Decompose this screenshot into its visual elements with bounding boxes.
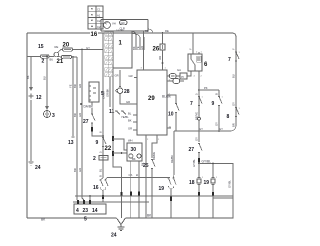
switch 9 right: [212, 90, 223, 132]
fuse 21 lower branch: [57, 55, 78, 65]
svg-text:GY: GY: [219, 127, 223, 131]
wire fuse15 horizontal from border: [27, 56, 54, 58]
connector pin stack left of block 1: [103, 32, 113, 179]
outer border top: [27, 33, 236, 37]
box 5: [89, 82, 104, 102]
oval GD: [120, 21, 128, 25]
svg-text:BU: BU: [50, 58, 54, 62]
fuse 15: [38, 44, 49, 58]
svg-text:21: 21: [57, 59, 64, 65]
dual switch 16: [93, 175, 108, 202]
svg-text:29: 29: [148, 96, 155, 102]
outer border left: [26, 33, 28, 218]
svg-text:27: 27: [83, 119, 89, 125]
curve from motor box right to border: [148, 29, 153, 33]
svg-text:4: 4: [76, 208, 79, 214]
svg-text:13: 13: [68, 140, 74, 146]
fuse 20 upper branch: [61, 43, 103, 52]
svg-text:3: 3: [52, 113, 55, 119]
rail 113 with pins to box 30: [105, 68, 122, 167]
svg-text:16: 16: [93, 185, 99, 191]
svg-text:7: 7: [190, 101, 193, 107]
svg-text:0.5 BK: 0.5 BK: [116, 29, 124, 33]
right rail switch 7 top: [228, 48, 239, 78]
svg-text:B: B: [99, 175, 103, 177]
svg-text:GR: GR: [78, 113, 82, 117]
svg-text:GD: GD: [121, 21, 125, 25]
component 28: [115, 70, 138, 104]
svg-text:VH: VH: [112, 22, 116, 26]
svg-text:GR: GR: [115, 74, 119, 78]
svg-text:14: 14: [92, 208, 98, 214]
middle rails 73 77 82: [68, 49, 84, 200]
svg-text:12: 12: [36, 95, 42, 101]
svg-text:RE/BK: RE/BK: [170, 155, 174, 163]
svg-text:24: 24: [111, 233, 117, 239]
svg-text:BR: BR: [73, 168, 77, 172]
component block 1: [113, 31, 132, 68]
svg-text:10: 10: [168, 112, 174, 118]
svg-text:RE: RE: [55, 45, 59, 49]
svg-text:GY: GY: [232, 102, 236, 106]
svg-text:5: 5: [84, 217, 87, 223]
svg-text:22: 22: [105, 146, 112, 152]
svg-text:2: 2: [42, 58, 45, 64]
Y drop from border into relay: [189, 33, 194, 54]
svg-text:BK: BK: [128, 119, 132, 123]
svg-text:9: 9: [96, 140, 99, 146]
DA/BK wire label under box5: [80, 102, 94, 114]
BL/BK wire from box29 to switch 10: [162, 95, 179, 132]
svg-text:CA/BK: CA/BK: [102, 91, 106, 99]
svg-text:YE: YE: [69, 84, 73, 88]
svg-text:9: 9: [212, 101, 215, 107]
svg-text:WH: WH: [128, 139, 133, 143]
svg-text:11: 11: [109, 109, 115, 115]
rail below relay: junction, switches 7 and 9: [190, 71, 219, 142]
svg-text:23: 23: [83, 208, 89, 214]
svg-text:Y: Y: [189, 48, 193, 50]
svg-text:BR: BR: [73, 84, 77, 88]
bottom connector box 4 23 14 / 5: [74, 195, 106, 222]
relay 6: [188, 52, 208, 71]
svg-text:PI: PI: [181, 75, 184, 79]
switch 25 chain from box29 bottom pin: [143, 137, 157, 219]
bottom horizontal bus y196: [75, 195, 233, 197]
svg-text:BK: BK: [132, 46, 136, 50]
svg-text:20: 20: [63, 43, 70, 49]
svg-text:YE/BL: YE/BL: [121, 115, 129, 119]
svg-text:GR/BK: GR/BK: [106, 88, 110, 97]
svg-text:GY: GY: [215, 122, 219, 126]
svg-text:BR/RE: BR/RE: [152, 152, 156, 160]
svg-text:A1: A1: [97, 13, 101, 17]
label 16 (connector): [90, 30, 98, 39]
switch 27 (left): [83, 114, 104, 137]
svg-text:Y: Y: [232, 48, 236, 50]
svg-text:18: 18: [189, 180, 195, 186]
lamp 3 branch: [43, 56, 56, 119]
svg-text:16: 16: [91, 32, 98, 38]
GR/BK rail short with switch 11: [109, 77, 129, 119]
right rail switch 8: [227, 102, 240, 127]
svg-text:GY: GY: [195, 137, 199, 141]
svg-text:24: 24: [35, 165, 41, 171]
ground symbol 24 (bottom center): [118, 225, 125, 231]
svg-text:GY/BL: GY/BL: [202, 160, 212, 164]
svg-text:C1: C1: [97, 8, 101, 12]
svg-text:B: B: [135, 174, 139, 176]
svg-text:BL: BL: [128, 112, 132, 116]
svg-text:GR: GR: [128, 127, 132, 131]
svg-text:B: B: [215, 93, 219, 95]
switch 27 right rail: [189, 144, 203, 168]
box 30 with two lamps: [113, 139, 142, 219]
svg-text:30: 30: [131, 147, 137, 153]
svg-text:BU: BU: [232, 74, 236, 78]
diode pair between box29 and relay6: [169, 68, 191, 83]
svg-text:19: 19: [204, 180, 210, 186]
BK wire from box29 bottom pin: [140, 137, 147, 219]
outer border bottom-left: [27, 217, 117, 219]
svg-text:PK: PK: [204, 86, 208, 90]
svg-text:GA: GA: [177, 68, 181, 72]
wires from block1 right side: [132, 32, 144, 51]
svg-text:GR: GR: [126, 100, 130, 104]
ground return wire to splice 24: [121, 167, 133, 218]
svg-text:C2: C2: [97, 25, 101, 29]
motor box top: [101, 20, 148, 32]
switch 9 (left) on rail: [96, 138, 107, 154]
svg-text:7: 7: [228, 57, 231, 63]
svg-text:DA/BK: DA/BK: [84, 105, 94, 109]
connector table top: [88, 6, 103, 29]
svg-text:BK: BK: [132, 157, 136, 161]
svg-text:BL: BL: [99, 168, 103, 172]
svg-text:19: 19: [159, 186, 165, 192]
horizontal GY wire y131: [174, 127, 230, 131]
svg-text:2: 2: [93, 156, 96, 162]
svg-text:BR: BR: [73, 113, 77, 117]
svg-text:C2: C2: [97, 19, 101, 23]
svg-text:GY: GY: [199, 127, 203, 131]
box 29: [128, 69, 171, 137]
svg-text:GY: GY: [86, 46, 90, 50]
bottom horizontal bus y202: [73, 201, 149, 203]
svg-text:GR: GR: [78, 84, 82, 88]
svg-text:15: 15: [38, 44, 44, 50]
drop from motor box to box29 pin: [143, 31, 145, 70]
outer border bottom-right: [126, 217, 234, 219]
fuse 19: [204, 178, 216, 219]
svg-text:GY/BL: GY/BL: [228, 180, 232, 188]
motor M circle: [104, 22, 111, 29]
svg-text:RE: RE: [145, 29, 149, 33]
svg-text:27: 27: [189, 147, 195, 153]
svg-text:26: 26: [153, 47, 160, 53]
svg-text:BK: BK: [26, 75, 30, 79]
left rail down to splice 12 and ground 24: [26, 57, 42, 172]
svg-text:YE: YE: [136, 46, 140, 50]
svg-text:OR: OR: [158, 56, 162, 60]
fuse 18: [189, 178, 201, 219]
rail from border with fuse 26 into box29: [153, 32, 165, 70]
pin number micro-labels: [141, 52, 241, 179]
svg-text:8: 8: [227, 114, 230, 120]
svg-text:BK: BK: [140, 162, 144, 166]
wire below junction y131 down to dual switch 19: [107, 131, 176, 218]
switch 7 mid: [198, 97, 202, 106]
right border rail with switches 7,8: [230, 37, 236, 131]
svg-text:RE: RE: [165, 29, 169, 33]
GY/BL distribution to fuses 18 19: [198, 160, 233, 219]
svg-text:GR: GR: [129, 74, 133, 78]
ignition switch 2: [42, 45, 62, 64]
svg-text:BR: BR: [232, 123, 236, 127]
ground 24 notch V: [117, 218, 126, 225]
svg-text:28: 28: [124, 89, 130, 95]
svg-text:BU: BU: [43, 76, 47, 80]
svg-text:GR: GR: [78, 168, 82, 172]
fuse 2 (lower) on rail: [93, 156, 108, 173]
svg-text:GY/BL: GY/BL: [192, 159, 196, 167]
